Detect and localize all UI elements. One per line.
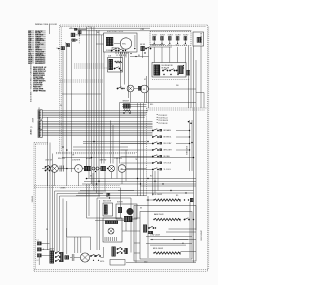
- wire: [190, 47, 192, 108]
- spark module: [71, 39, 77, 42]
- wire: [43, 125, 153, 127]
- junction: [185, 192, 186, 193]
- wire: [101, 35, 103, 164]
- panel switch row 5: [152, 155, 170, 159]
- wire: [71, 42, 73, 172]
- junction: [109, 197, 110, 198]
- junction: [62, 146, 64, 148]
- wire: [122, 230, 134, 232]
- svg-text:DLB: DLB: [108, 56, 111, 58]
- wire: [62, 50, 64, 168]
- lower latch cluster: [49, 247, 64, 263]
- wire: [134, 252, 140, 254]
- connector P9: [71, 33, 75, 37]
- wire: [96, 30, 98, 193]
- wire: [83, 141, 147, 143]
- svg-text:DR SW: DR SW: [140, 44, 146, 46]
- dashed drop to P9 (dashed): [78, 27, 80, 44]
- wire: [147, 196, 149, 258]
- wire: [150, 44, 165, 46]
- connector label P5: [30, 127, 32, 135]
- wire: [134, 217, 140, 219]
- svg-text:PK: PK: [46, 229, 48, 231]
- wire: [121, 52, 123, 58]
- svg-text:NO-C: NO-C: [184, 44, 188, 46]
- latch motor M1: [127, 85, 134, 92]
- wire: [87, 217, 104, 219]
- svg-text:SENSOR: SENSOR: [123, 101, 130, 103]
- wire: [82, 183, 196, 185]
- wire: [62, 157, 194, 159]
- conv wires: [146, 237, 192, 246]
- svg-text:GY: GY: [144, 79, 146, 81]
- wire: [125, 150, 127, 181]
- junction: [193, 219, 195, 221]
- wire: [177, 47, 179, 63]
- svg-text:L2: L2: [37, 260, 39, 262]
- wire: [175, 239, 197, 241]
- wire: [189, 202, 191, 258]
- wire: [193, 46, 195, 196]
- lower-oven divider (dashed): [34, 186, 120, 188]
- connector J2: [193, 32, 204, 46]
- wire: [189, 120, 191, 171]
- wire: [62, 93, 101, 95]
- svg-text:TN: TN: [135, 159, 137, 161]
- svg-text:BLU/WHT: BLU/WHT: [35, 63, 45, 65]
- wire: [55, 191, 107, 252]
- wire: [103, 217, 121, 219]
- wire: [110, 121, 112, 164]
- svg-text:MOTOR: MOTOR: [117, 202, 123, 204]
- power contact 2: [169, 69, 175, 71]
- wire: [150, 46, 172, 48]
- wire: [169, 228, 197, 230]
- svg-text:BU FAN: BU FAN: [164, 155, 171, 158]
- wire: [86, 27, 88, 169]
- wire: [148, 88, 196, 90]
- wire: [120, 188, 122, 218]
- svg-text:K5-RLY: K5-RLY: [183, 34, 188, 36]
- wire: [99, 168, 101, 170]
- junction: [190, 122, 192, 124]
- svg-text:BK-1: BK-1: [150, 104, 154, 106]
- wire: [128, 52, 130, 98]
- wire: [140, 185, 196, 187]
- wire (dashed): [74, 67, 108, 69]
- neutral terminal N: [57, 46, 65, 50]
- console ledge (dashed): [34, 143, 48, 145]
- wire: [98, 30, 100, 197]
- wire: [43, 111, 148, 113]
- lower oven box: [134, 206, 196, 262]
- wire: [137, 103, 139, 196]
- broil element: [153, 199, 180, 201]
- wire: [154, 171, 156, 193]
- svg-text:BK RD WH: BK RD WH: [162, 67, 170, 69]
- clock motor: [114, 38, 132, 49]
- lock cam ticks: [60, 166, 64, 172]
- wire: [152, 171, 154, 196]
- power dots: [163, 74, 178, 75]
- svg-text:MEAT PROBE: MEAT PROBE: [33, 89, 46, 92]
- svg-text:LOWER: LOWER: [60, 188, 66, 190]
- wire: [80, 190, 194, 192]
- legend bracket: [49, 24, 51, 35]
- power terminal N: [37, 248, 44, 252]
- svg-text:P1-2: P1-2: [88, 27, 91, 29]
- wire: [86, 184, 88, 218]
- cool motor M2: [141, 85, 149, 93]
- junction: [147, 178, 148, 179]
- wire: [92, 173, 94, 186]
- upper-oven section box (dashed): [147, 108, 208, 196]
- interlock TCO: [78, 30, 82, 36]
- junction: [162, 183, 163, 184]
- junction: [137, 178, 138, 179]
- wire: [43, 131, 153, 133]
- ERC control box: [104, 33, 138, 52]
- wire: [126, 262, 196, 264]
- junction: [193, 157, 195, 159]
- wire: [43, 122, 153, 124]
- svg-text:RD CONV: RD CONV: [164, 143, 173, 145]
- wire: [77, 237, 79, 253]
- panel switch row 3: [152, 142, 172, 146]
- wire: [88, 30, 90, 179]
- svg-text:BK: BK: [140, 208, 142, 210]
- relay KC1: [65, 42, 70, 46]
- svg-text:COOL MTR: COOL MTR: [114, 158, 123, 160]
- wire: [144, 93, 146, 103]
- lower lock motor: [80, 253, 89, 262]
- junction: [96, 183, 98, 185]
- wire: [73, 146, 128, 148]
- junction: [188, 121, 190, 123]
- wire: [76, 29, 87, 31]
- wire: [122, 106, 147, 108]
- wire: [83, 142, 147, 144]
- wire: [95, 220, 131, 222]
- bake element: [153, 218, 180, 220]
- wire: [43, 130, 153, 132]
- junction: [66, 168, 68, 170]
- wire: [96, 198, 98, 250]
- panel switch row 2: [152, 135, 171, 139]
- svg-text:MDL DOOR: MDL DOOR: [103, 201, 112, 203]
- wire: [60, 196, 101, 251]
- wire: [49, 143, 51, 251]
- svg-text:BROIL 3600W: BROIL 3600W: [153, 248, 163, 250]
- junction: [106, 195, 107, 196]
- broil terminals: [184, 198, 194, 202]
- aux terminal: [178, 66, 190, 76]
- junction: [93, 141, 95, 143]
- wire: [42, 168, 46, 170]
- wire: [62, 199, 64, 255]
- legend color-code table: [28, 30, 46, 65]
- wire: [143, 103, 145, 196]
- wire: [42, 248, 50, 250]
- svg-text:L1: L1: [37, 240, 39, 242]
- svg-text:COMPONENT CODE LISTING – SEE N: COMPONENT CODE LISTING – SEE NOTES: [29, 64, 31, 103]
- console/oven divider (dashed): [56, 152, 137, 154]
- junction: [98, 181, 100, 183]
- wire: [43, 135, 153, 137]
- wire (dashed): [60, 79, 104, 81]
- wire: [161, 47, 163, 63]
- label ERC: [106, 31, 124, 52]
- wire: [125, 222, 127, 231]
- wire: [88, 184, 90, 216]
- junction: [170, 190, 171, 191]
- svg-text:LIGHT SW: LIGHT SW: [99, 160, 107, 162]
- wire: [134, 242, 140, 244]
- conv motor M4: [75, 165, 83, 173]
- lower latch switch cluster: [112, 247, 128, 257]
- wire: [121, 172, 123, 184]
- junction: [47, 168, 49, 170]
- wire: [140, 103, 142, 196]
- wire: [93, 27, 95, 191]
- wire (dashed): [74, 65, 104, 67]
- power contact 3: [176, 69, 182, 71]
- panel switch row 7: [152, 168, 171, 172]
- wire: [130, 198, 132, 253]
- svg-text:LOCK SW: LOCK SW: [45, 160, 53, 162]
- wire: [195, 60, 197, 230]
- svg-text:K3-RLY: K3-RLY: [168, 34, 173, 36]
- panel switch row 4: [152, 148, 172, 152]
- wire: [122, 104, 147, 106]
- svg-text:M: M: [143, 89, 145, 91]
- svg-text:P3: P3: [38, 128, 40, 130]
- svg-text:ELECTRONIC CLOCK: ELECTRONIC CLOCK: [107, 31, 124, 33]
- svg-text:8101P: 8101P: [31, 118, 33, 123]
- stack row feed wires: [121, 144, 153, 170]
- wire: [47, 117, 49, 250]
- wire: [103, 52, 105, 164]
- power contact 1: [162, 69, 168, 71]
- svg-text:BK BROIL: BK BROIL: [164, 137, 172, 139]
- power terminal L2: [37, 254, 42, 263]
- svg-text:YL COOL: YL COOL: [164, 169, 171, 171]
- oven lamp: [109, 166, 115, 172]
- wire: [184, 47, 186, 63]
- wire: [43, 116, 145, 118]
- wire: [135, 206, 137, 263]
- wire: [43, 110, 149, 112]
- svg-text:K1-RLY: K1-RLY: [152, 34, 157, 36]
- cabinet border top (dashed): [60, 25, 207, 27]
- cabinet border bottom (dashed): [34, 270, 209, 272]
- lower broil element: [153, 252, 180, 254]
- wire: [118, 190, 134, 192]
- oven relays K1-K5: [152, 34, 188, 46]
- lower interlock: [90, 254, 100, 261]
- wire: [97, 197, 131, 199]
- wire (dashed): [60, 81, 104, 83]
- stack row output wires: [176, 130, 190, 151]
- cabinet border left upper (dashed): [60, 25, 61, 154]
- svg-text:WH: WH: [176, 85, 179, 87]
- svg-text:P1: P1: [38, 108, 40, 110]
- wire: [196, 93, 204, 109]
- wire: [43, 121, 153, 123]
- svg-text:NO-C: NO-C: [168, 44, 172, 46]
- wire: [78, 172, 80, 186]
- board connector P1: [38, 108, 42, 119]
- junction: [140, 183, 141, 184]
- junction block dark: [124, 216, 132, 222]
- wire: [42, 242, 50, 244]
- wire: [166, 231, 196, 233]
- wire: [43, 124, 153, 126]
- door switch cluster: [140, 44, 151, 58]
- wire: [120, 52, 122, 89]
- svg-text:BK: BK: [90, 176, 92, 178]
- oven box top rail: [120, 103, 197, 164]
- wire: [116, 158, 118, 179]
- wire: [96, 43, 104, 45]
- door assembly rail: [67, 228, 91, 250]
- wire: [82, 168, 84, 170]
- panel switch row 1: [152, 129, 171, 133]
- power board outline: [152, 63, 186, 78]
- junction: [66, 149, 68, 151]
- svg-text:MDL MTR: MDL MTR: [58, 158, 66, 160]
- temp sensor: [123, 101, 131, 114]
- wire: [126, 168, 147, 170]
- wire: [169, 47, 171, 63]
- latch coil: [115, 61, 122, 63]
- wire: [103, 247, 105, 258]
- wire: [43, 115, 146, 117]
- latch relay stripes: [109, 59, 113, 70]
- cabinet border right (dashed): [207, 25, 209, 271]
- legend abbreviation list: [33, 67, 47, 93]
- wire: [111, 172, 113, 179]
- wire: [52, 154, 54, 251]
- wire: [76, 195, 147, 197]
- wire: [43, 127, 153, 129]
- wire: [57, 194, 103, 253]
- lock motor M3: [51, 165, 59, 173]
- wire: [191, 120, 193, 171]
- wire: [124, 52, 126, 85]
- svg-text:P5: P5: [30, 127, 32, 129]
- power board stripes: [154, 65, 161, 76]
- wire: [79, 30, 191, 32]
- svg-text:HI-LIMIT: HI-LIMIT: [86, 158, 92, 160]
- wire: [200, 46, 202, 108]
- wire: [125, 52, 127, 58]
- terminal column: [134, 36, 136, 49]
- MDL motor box: [116, 202, 137, 219]
- row labels: [45, 158, 123, 162]
- light block: [101, 166, 109, 171]
- cabinet border left lower (dashed): [34, 143, 35, 272]
- svg-text:P4: P4: [60, 105, 62, 107]
- latch contact: [114, 67, 122, 72]
- wire: [188, 46, 190, 108]
- lock relay box: [103, 203, 113, 216]
- wire: [104, 171, 106, 191]
- power terminal L1: [37, 240, 42, 246]
- wire: [84, 180, 196, 182]
- cam switch S1: [111, 47, 126, 52]
- cool fan M5: [118, 165, 126, 173]
- wire: [91, 27, 93, 184]
- wire: [87, 178, 197, 180]
- svg-text:P2-7 BU-18: P2-7 BU-18: [159, 123, 168, 125]
- junction: [154, 181, 155, 182]
- svg-text:WIRING CODE – COLOR: WIRING CODE – COLOR: [35, 24, 57, 26]
- wire: [134, 88, 141, 90]
- junction: [91, 157, 93, 159]
- board connector P2: [38, 119, 42, 130]
- wire: [58, 168, 74, 170]
- wire: [101, 257, 104, 259]
- wire: [157, 171, 159, 191]
- wire: [38, 257, 40, 265]
- wire: [66, 47, 68, 186]
- svg-text:L1 BK: L1 BK: [140, 29, 144, 31]
- svg-text:BR BAKE: BR BAKE: [164, 129, 172, 132]
- board connector P3: [38, 128, 42, 137]
- svg-text:BK: BK: [97, 32, 99, 34]
- junction: [147, 199, 149, 201]
- latch relay box: [108, 58, 123, 73]
- wire: [112, 125, 114, 164]
- latch aux marks: [65, 255, 70, 259]
- junction: [191, 142, 193, 144]
- wire marks: [107, 193, 111, 196]
- ERC relay block: [106, 37, 113, 46]
- wire: [43, 133, 153, 135]
- wire: [47, 172, 49, 186]
- svg-text:BROIL 3400W: BROIL 3400W: [152, 194, 162, 196]
- wire: [147, 199, 155, 201]
- wire (dashed): [152, 79, 190, 81]
- label power relay: [162, 64, 185, 69]
- wire: [80, 237, 82, 253]
- wire: [134, 230, 140, 232]
- wire: [76, 34, 104, 36]
- wire: [153, 47, 155, 63]
- wire (dashed): [74, 63, 104, 65]
- latch switch S2: [117, 86, 142, 91]
- hi-limit block: [84, 166, 91, 171]
- wire: [66, 201, 68, 254]
- svg-text:BU: BU: [138, 55, 140, 57]
- svg-text:BK: BK: [182, 243, 184, 245]
- bottom junction box: [110, 260, 125, 266]
- lower oven inner box: [140, 212, 192, 260]
- wire: [148, 47, 150, 108]
- svg-text:K4-RLY: K4-RLY: [176, 34, 181, 36]
- svg-text:L1: L1: [70, 28, 72, 30]
- wire: [193, 196, 195, 263]
- wire: [43, 113, 147, 115]
- wire: [42, 254, 50, 256]
- svg-text:SERIES: SERIES: [31, 196, 33, 203]
- wire: [69, 27, 150, 29]
- probe jacks: [92, 167, 99, 172]
- wire: [130, 92, 132, 103]
- wire: [73, 149, 128, 151]
- svg-text:GN/YL: GN/YL: [100, 261, 105, 263]
